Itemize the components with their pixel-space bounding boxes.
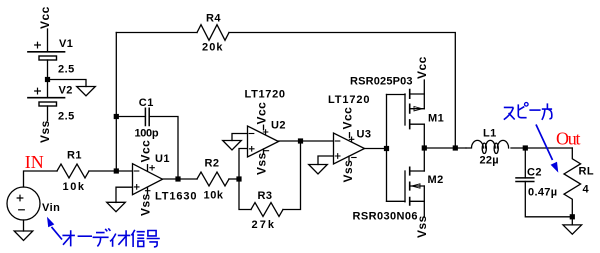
node junction U1 inverting input	[114, 168, 119, 173]
transistor M2	[405, 148, 424, 217]
svg-text:Vss: Vss	[38, 120, 52, 143]
svg-text:Out: Out	[556, 128, 581, 148]
ground G1	[77, 87, 96, 96]
ground G2	[14, 231, 33, 241]
wire R1 to U1 inverting input	[89, 170, 133, 172]
op-amp U1	[133, 164, 163, 195]
svg-text:RSR025P03: RSR025P03	[350, 76, 413, 88]
wire C2 branch	[524, 148, 526, 178]
battery V1	[28, 42, 65, 60]
svg-text:27k: 27k	[252, 219, 275, 231]
svg-text:Vcc: Vcc	[255, 102, 269, 125]
svg-text:2.5: 2.5	[58, 64, 75, 76]
wire U2 output to U3 - input	[279, 140, 334, 142]
wire R3 right up to U2 output wire	[283, 141, 301, 210]
wire output node to L1	[424, 147, 466, 149]
node junction C1 tap on feedback wire	[114, 114, 119, 119]
svg-text:RSR030N06: RSR030N06	[353, 211, 419, 223]
svg-text:R2: R2	[205, 158, 220, 170]
svg-text:LT1720: LT1720	[328, 94, 370, 106]
svg-text:Vcc: Vcc	[341, 107, 355, 130]
svg-text:IN: IN	[25, 152, 44, 172]
annotation speaker text	[504, 103, 552, 120]
ground G6	[563, 225, 582, 234]
svg-text:100p: 100p	[135, 128, 160, 140]
svg-text:R4: R4	[206, 13, 221, 25]
svg-text:M1: M1	[428, 113, 444, 125]
wire R2 right to junction	[229, 178, 239, 180]
svg-text:Vcc: Vcc	[38, 6, 52, 29]
svg-text:U1: U1	[155, 153, 170, 165]
wire C1 right to U1 output	[149, 117, 178, 180]
wire M2 gate lead	[387, 200, 406, 202]
op-amp U3	[334, 133, 365, 164]
svg-text:22µ: 22µ	[480, 154, 500, 166]
node junction R2-R3 to U2 input	[236, 176, 241, 181]
wire U1 + input to ground	[116, 187, 133, 202]
wire ground below Vin	[23, 220, 25, 231]
svg-text:R1: R1	[67, 150, 82, 162]
node junction gate drive	[384, 146, 389, 151]
svg-text:4: 4	[583, 184, 590, 196]
svg-text:C1: C1	[139, 97, 154, 109]
wire junction down to R3	[239, 179, 251, 210]
wire U1 output to R2	[163, 178, 198, 180]
wire mid node to ground	[48, 80, 87, 87]
node junction RL bottom to ground	[570, 214, 575, 219]
wire C2 bottom	[525, 182, 572, 217]
wire C1 left	[116, 116, 145, 118]
svg-text:Vss: Vss	[139, 193, 153, 216]
capacitor C1	[145, 108, 149, 125]
wire V2 to Vss flag	[47, 106, 49, 121]
resistor R4	[197, 25, 229, 41]
node junction M1-M2 drains	[422, 145, 427, 150]
ground G3	[107, 202, 126, 211]
node junction V1-V2 midpoint	[45, 77, 50, 82]
wire R4 right to output node	[229, 33, 455, 149]
svg-text:M2: M2	[428, 174, 444, 186]
svg-text:U3: U3	[357, 129, 372, 141]
annotation arrow speaker	[536, 125, 558, 173]
svg-text:V2: V2	[59, 85, 73, 97]
svg-text:LT1630: LT1630	[155, 191, 197, 203]
node junction R3 feedback on U2 output	[298, 138, 303, 143]
voltage source Vin	[7, 187, 40, 220]
resistor R2	[197, 172, 229, 186]
wire U3 + input to ground	[318, 156, 334, 165]
resistor R3	[251, 203, 283, 217]
svg-text:Vin: Vin	[42, 202, 60, 214]
svg-text:C2: C2	[527, 167, 542, 179]
wire gate vertical	[386, 95, 388, 202]
svg-text:RL: RL	[579, 166, 595, 178]
svg-text:Vss: Vss	[341, 160, 355, 183]
svg-text:L1: L1	[483, 128, 497, 140]
ground G5	[309, 165, 328, 174]
node junction C2 tap	[523, 145, 528, 150]
node junction U1 output	[175, 176, 180, 181]
svg-text:2.5: 2.5	[58, 111, 75, 123]
wire Vin to R1	[24, 171, 58, 187]
svg-text:R3: R3	[258, 190, 273, 202]
svg-text:U2: U2	[271, 120, 286, 132]
wire RL bottom ground	[571, 217, 573, 225]
annotation arrow audio	[47, 217, 62, 240]
svg-text:0.47µ: 0.47µ	[528, 187, 558, 199]
battery V2	[28, 88, 65, 106]
wire L1 to C2 node to RL	[511, 147, 572, 149]
svg-text:LT1720: LT1720	[245, 89, 286, 101]
wire Vcc stub to V1	[47, 29, 49, 52]
wire V1 to V2	[47, 60, 49, 98]
wire U3 output to gate node	[365, 148, 387, 150]
resistor R1	[57, 164, 89, 178]
capacitor C2	[516, 178, 534, 182]
ground G4	[223, 141, 242, 150]
feedback vertical wire (R4/C1 to U1 input)	[115, 33, 117, 172]
op-amp U2	[248, 125, 279, 157]
wire junction up to U2 + input	[239, 149, 248, 180]
transistor M1	[405, 80, 424, 148]
svg-text:Vcc: Vcc	[139, 140, 153, 163]
wire U2 - input to ground	[232, 134, 248, 141]
svg-text:Vss: Vss	[255, 152, 269, 175]
wire M1 gate lead	[387, 94, 406, 96]
resistor RL	[564, 148, 581, 217]
wire R4 top	[116, 32, 197, 34]
svg-text:10k: 10k	[204, 190, 224, 202]
node junction R4 feedback tap	[453, 145, 458, 150]
annotation audio signal text	[62, 228, 159, 247]
svg-text:20k: 20k	[202, 42, 223, 54]
svg-text:Vcc: Vcc	[415, 56, 429, 79]
svg-text:V1: V1	[59, 38, 73, 50]
svg-text:10k: 10k	[63, 181, 85, 193]
inductor L1	[466, 140, 509, 148]
